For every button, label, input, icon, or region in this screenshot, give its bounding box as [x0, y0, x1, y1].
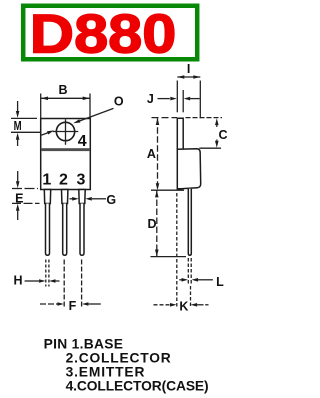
mounting hole	[56, 122, 74, 140]
svg-text:B: B	[58, 83, 67, 97]
part number box (green border)	[23, 6, 197, 60]
dimension A extension lines	[151, 118, 184, 191]
dimension B extension line left	[40, 94, 42, 120]
svg-text:E: E	[15, 192, 23, 206]
dimension C extension lines	[186, 118, 223, 149]
svg-text:L: L	[216, 275, 224, 289]
part number label D880	[30, 3, 177, 64]
dimension L arrows	[179, 278, 213, 282]
dimension E extension lines	[12, 189, 40, 204]
heatsink tab (side view)	[177, 118, 183, 149]
lead 3 (emitter)	[79, 190, 85, 256]
lead (side view)	[188, 189, 191, 256]
dimension L extension lines	[188, 258, 191, 284]
dimension B extension line right	[89, 94, 91, 120]
svg-text:J: J	[147, 92, 154, 106]
svg-text:D880: D880	[30, 3, 177, 64]
dimension D bottom extension line (lead tip)	[151, 256, 187, 258]
molded body (side view)	[177, 149, 200, 189]
svg-text:A: A	[147, 147, 156, 161]
svg-text:F: F	[69, 299, 77, 313]
svg-text:I: I	[187, 62, 190, 76]
package body outline (front view)	[41, 119, 91, 190]
dimension F arrows	[40, 302, 101, 306]
dimension G arrows	[70, 197, 107, 201]
dimension M extension lines	[11, 118, 41, 132]
svg-text:H: H	[13, 273, 22, 287]
dimension B line with arrows	[41, 97, 90, 101]
svg-text:4.COLLECTOR(CASE): 4.COLLECTOR(CASE)	[66, 379, 209, 394]
dimension K arrows	[154, 303, 209, 307]
dimension E arrows	[16, 171, 20, 220]
svg-text:2: 2	[59, 171, 68, 188]
dimension F extension lines (lead centerlines)	[64, 260, 81, 309]
dimension I line with arrows	[177, 75, 200, 79]
pin description text	[44, 336, 209, 393]
svg-text:D: D	[147, 217, 156, 231]
svg-text:1: 1	[42, 171, 51, 188]
svg-text:O: O	[114, 94, 124, 108]
dimension J extension line	[182, 90, 184, 112]
dimension K extension lines	[177, 193, 191, 308]
svg-text:3.EMITTER: 3.EMITTER	[66, 365, 146, 380]
lead 2 (collector)	[62, 190, 68, 256]
dimension D line with arrows	[155, 191, 159, 257]
svg-text:M: M	[14, 119, 22, 133]
svg-text:2.COLLECTOR: 2.COLLECTOR	[66, 351, 172, 366]
svg-text:K: K	[179, 300, 188, 314]
svg-text:C: C	[218, 128, 227, 142]
svg-text:4: 4	[78, 133, 87, 150]
dimension J arrows	[158, 97, 200, 101]
dimension I extension lines	[177, 81, 200, 119]
svg-text:3: 3	[77, 171, 86, 188]
svg-text:PIN 1.BASE: PIN 1.BASE	[44, 336, 124, 351]
hole crosshair	[53, 119, 79, 145]
dimension M arrows	[16, 101, 20, 146]
molding seam	[42, 148, 90, 151]
lead 1 (base)	[44, 190, 50, 256]
dimension H arrows	[25, 279, 60, 283]
svg-text:G: G	[106, 193, 116, 207]
dimension O leader with arrows	[42, 108, 114, 135]
dimension A line with arrows	[156, 118, 160, 190]
dimension H extension lines	[46, 260, 49, 287]
dimension C arrows	[215, 118, 219, 148]
